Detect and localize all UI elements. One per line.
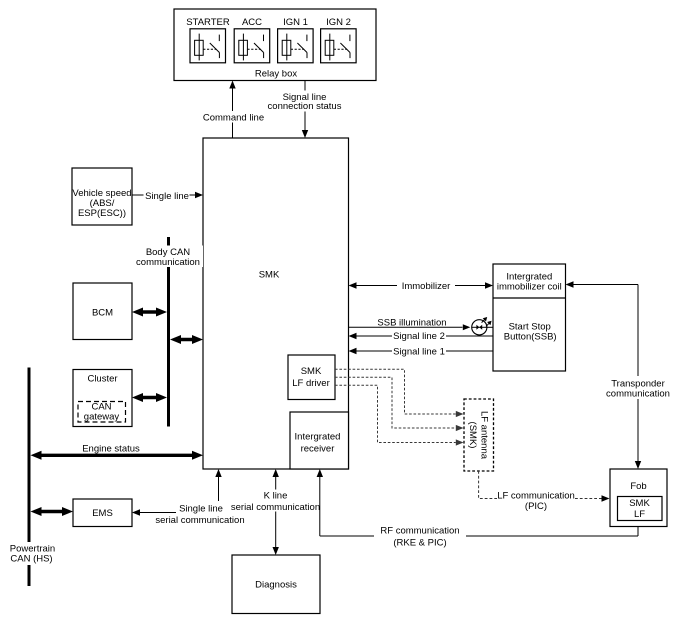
- Intergrated immobilizer coil / Start Stop Button box: [493, 264, 566, 371]
- svg-text:SMK: SMK: [301, 366, 322, 377]
- wire bus to SMK (double arrow): [170, 335, 203, 344]
- SMK LF driver box: [288, 355, 335, 400]
- svg-text:ESP(ESC)): ESP(ESC)): [78, 208, 126, 219]
- svg-text:BCM: BCM: [92, 308, 113, 319]
- svg-text:connection status: connection status: [268, 101, 342, 112]
- wire single line (vehicle speed to SMK): [132, 190, 203, 203]
- svg-text:IGN 2: IGN 2: [326, 17, 351, 28]
- svg-text:LF driver: LF driver: [292, 378, 329, 389]
- wire single line serial up into SMK: [215, 469, 221, 501]
- svg-text:IGN 1: IGN 1: [283, 17, 308, 28]
- svg-text:ACC: ACC: [242, 17, 262, 28]
- svg-text:Diagnosis: Diagnosis: [255, 580, 297, 591]
- svg-text:SSB illumination: SSB illumination: [377, 317, 446, 328]
- wire EMS to bus (double arrow): [31, 507, 74, 516]
- wire K line serial (double arrow SMK-Diagnosis): [231, 469, 320, 555]
- svg-text:gateway: gateway: [84, 412, 120, 423]
- Body CAN bus: [134, 237, 203, 427]
- svg-text:Intergrated: Intergrated: [295, 432, 341, 443]
- CAN gateway box (dashed): [78, 402, 126, 423]
- wire transponder communication: [566, 281, 673, 469]
- relay STARTER: [190, 29, 226, 63]
- svg-text:Engine status: Engine status: [82, 444, 140, 455]
- wire Cluster to bus (double arrow): [132, 393, 167, 402]
- svg-text:Signal line 1: Signal line 1: [393, 346, 445, 357]
- BCM box: [73, 283, 132, 340]
- Powertrain CAN bus: [8, 368, 57, 587]
- relay IGN 1: [278, 29, 314, 63]
- wire BCM to bus (double arrow): [132, 308, 167, 317]
- svg-text:Button(SSB): Button(SSB): [504, 332, 557, 343]
- svg-text:Command line: Command line: [203, 113, 264, 124]
- illumination lamp symbol: [472, 317, 492, 335]
- Intergrated receiver box: [290, 412, 349, 469]
- svg-text:Relay box: Relay box: [255, 69, 297, 80]
- wire RF communication: [317, 469, 638, 548]
- wire engine status (double arrow): [31, 444, 204, 460]
- svg-text:LF antenna: LF antenna: [479, 411, 490, 460]
- wire LF dashed line 2: [335, 377, 464, 431]
- svg-text:Cluster: Cluster: [87, 374, 117, 385]
- svg-text:Signal line 2: Signal line 2: [393, 331, 445, 342]
- svg-text:Single line: Single line: [145, 191, 189, 202]
- wire signal line connection status: [268, 81, 342, 139]
- SMK box: [203, 138, 349, 469]
- svg-text:serial communication: serial communication: [155, 515, 244, 526]
- LF antenna (SMK) box: [464, 399, 494, 471]
- Cluster box: [73, 370, 132, 427]
- Diagnosis box: [232, 555, 320, 614]
- wire immobilizer (double arrow): [349, 280, 494, 293]
- svg-text:SMK: SMK: [259, 270, 280, 281]
- svg-text:communication: communication: [606, 389, 670, 400]
- svg-text:K line: K line: [264, 491, 288, 502]
- relay box: [174, 9, 376, 81]
- wire LF communication (PIC): [479, 471, 610, 512]
- svg-text:Immobilizer: Immobilizer: [402, 281, 451, 292]
- wire single line serial (to EMS): [132, 504, 245, 527]
- svg-text:(PIC): (PIC): [525, 501, 547, 512]
- relay ACC: [234, 29, 270, 63]
- svg-text:STARTER: STARTER: [186, 17, 230, 28]
- svg-text:(RKE & PIC): (RKE & PIC): [393, 537, 446, 548]
- wire signal line 1: [349, 346, 494, 358]
- svg-text:EMS: EMS: [92, 508, 113, 519]
- svg-text:communication: communication: [136, 257, 200, 268]
- svg-text:immobilizer coil: immobilizer coil: [497, 282, 562, 293]
- svg-text:serial communication: serial communication: [231, 502, 320, 513]
- Vehicle speed box: [72, 168, 132, 225]
- Fob box: [610, 469, 667, 527]
- svg-text:receiver: receiver: [301, 444, 335, 455]
- svg-text:CAN (HS): CAN (HS): [10, 554, 52, 565]
- svg-text:Fob: Fob: [630, 481, 646, 492]
- svg-text:SMK: SMK: [629, 498, 650, 509]
- svg-text:RF communication: RF communication: [380, 526, 459, 537]
- wire LF dashed line 1: [335, 369, 464, 417]
- wire command line: [202, 81, 265, 139]
- relay IGN 2: [321, 29, 357, 63]
- wire SSB illumination: [349, 317, 494, 331]
- wire LF dashed line 3: [335, 385, 464, 445]
- svg-text:Single line: Single line: [179, 504, 223, 515]
- svg-text:(SMK): (SMK): [467, 422, 478, 449]
- wire signal line 2: [349, 331, 494, 343]
- svg-text:LF: LF: [634, 509, 645, 520]
- EMS box: [73, 499, 132, 527]
